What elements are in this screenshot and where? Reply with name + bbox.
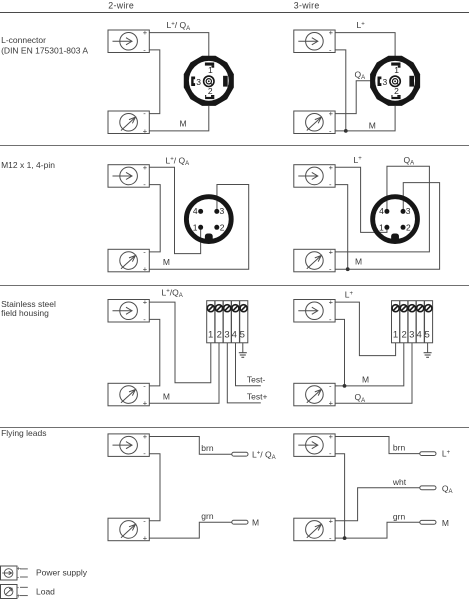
load R8 <box>294 516 335 542</box>
wire M from load plus to pin 2 <box>149 106 209 131</box>
power supply U8 <box>294 432 335 458</box>
separator rule 1 <box>0 145 469 147</box>
junction dot <box>346 267 350 271</box>
load R2 <box>294 109 335 135</box>
svg-text:M: M <box>355 256 362 266</box>
svg-text:-: - <box>17 574 19 581</box>
power supply U2 <box>294 28 335 54</box>
wire L+/QA to terminal 1 <box>149 302 211 383</box>
svg-text:Load: Load <box>36 587 55 597</box>
wire M from load minus to pin 3 <box>335 183 440 270</box>
svg-text:field housing: field housing <box>1 308 49 318</box>
ground symbol <box>424 353 432 358</box>
load R3 <box>108 248 149 274</box>
wire QA from load plus to pin 3 <box>335 81 373 114</box>
svg-text:Test-: Test- <box>247 374 266 384</box>
wire L+ to pin 1 <box>335 33 395 56</box>
wire brn from PS plus <box>335 437 420 454</box>
ferrule wht <box>420 486 436 490</box>
power supply U3 <box>108 163 149 189</box>
wire Test+ from terminal 3 <box>227 343 260 403</box>
svg-text:+: + <box>17 566 21 573</box>
load R6 <box>294 382 335 408</box>
svg-text:M: M <box>163 257 170 267</box>
svg-text:M: M <box>362 374 369 384</box>
svg-text:M12 x 1, 4-pin: M12 x 1, 4-pin <box>1 160 55 170</box>
junction dot <box>343 536 347 540</box>
ground symbol <box>239 353 247 358</box>
wire QA from load plus to terminal 3 <box>335 343 412 403</box>
legend power supply symbol <box>1 566 28 582</box>
wire L+ to pin 1 <box>335 167 387 232</box>
ferrule brn <box>232 452 248 456</box>
separator rule 2 <box>0 285 469 287</box>
svg-text:Test+: Test+ <box>247 392 268 402</box>
junction dot <box>343 384 347 388</box>
load R4 <box>294 248 335 274</box>
svg-text:+: + <box>17 593 21 600</box>
top rule <box>0 12 469 14</box>
power supply U6 <box>294 298 335 324</box>
wire Test- from terminal 4 <box>236 343 261 386</box>
svg-text:M: M <box>180 119 187 129</box>
svg-text:M: M <box>252 517 259 527</box>
svg-text:brn: brn <box>201 443 214 453</box>
svg-text:-: - <box>17 585 19 592</box>
power supply U4 <box>294 163 335 189</box>
wire L+ to terminal 1 <box>335 302 396 356</box>
svg-text:Power supply: Power supply <box>36 567 88 577</box>
svg-text:Flying leads: Flying leads <box>1 428 46 438</box>
svg-text:brn: brn <box>393 443 406 453</box>
wire PS minus to load minus <box>149 319 160 386</box>
wire QA from load plus to pin 4 <box>335 166 429 252</box>
svg-text:2-wire: 2-wire <box>108 1 134 11</box>
terminal block X5 <box>207 301 248 343</box>
ferrule brn <box>420 452 436 456</box>
wire PS minus down to M node <box>335 50 346 131</box>
wire M from load minus to pin 2 <box>335 106 395 131</box>
svg-text:wht: wht <box>392 477 407 487</box>
wire PS minus down to M node <box>335 319 344 386</box>
wire L+/QA to pin 1 <box>149 33 209 56</box>
power supply U1 <box>108 28 149 54</box>
svg-text:grn: grn <box>393 511 406 521</box>
wire PS minus to load minus <box>149 454 160 521</box>
wire grn from load plus <box>149 522 232 538</box>
svg-text:M: M <box>163 391 170 401</box>
wire PS minus down to M node <box>335 454 345 538</box>
power supply U5 <box>108 298 149 324</box>
wire wht from load plus <box>335 488 420 521</box>
wire M from load plus to pin 3 <box>149 185 248 270</box>
power supply U7 <box>108 432 149 458</box>
wire M from load plus to terminal 2 <box>149 343 219 403</box>
load R7 <box>108 516 149 542</box>
DIN connector X1 <box>184 56 234 106</box>
wire grn from load minus <box>335 522 420 538</box>
wire PS minus to load minus <box>149 50 160 114</box>
wire terminal 5 to ground <box>242 343 244 353</box>
terminal block X6 <box>392 301 433 343</box>
M12 connector X3 <box>186 197 231 242</box>
load R1 <box>108 109 149 135</box>
wire L+/QA to pin 1 <box>149 167 200 253</box>
load R5 <box>108 382 149 408</box>
ferrule grn <box>232 520 248 524</box>
ferrule grn <box>420 520 436 524</box>
legend load symbol <box>1 585 28 600</box>
svg-text:M: M <box>369 121 376 131</box>
wire M from load minus to terminal 2 <box>335 343 404 386</box>
wire PS minus to load minus <box>149 185 160 252</box>
wire brn from PS plus <box>149 437 232 455</box>
svg-text:L-connector: L-connector <box>1 35 46 45</box>
svg-text:3-wire: 3-wire <box>294 1 320 11</box>
M12 connector X4 <box>373 197 418 242</box>
svg-text:M: M <box>442 518 449 528</box>
separator rule 3 <box>0 427 469 429</box>
junction dot <box>344 129 348 133</box>
DIN connector X2 <box>370 56 420 106</box>
wire PS minus down to M node <box>335 185 348 270</box>
svg-text:grn: grn <box>201 511 214 521</box>
svg-text:(DIN EN 175301-803 A: (DIN EN 175301-803 A <box>1 46 88 56</box>
wire terminal 5 to ground <box>427 343 429 353</box>
